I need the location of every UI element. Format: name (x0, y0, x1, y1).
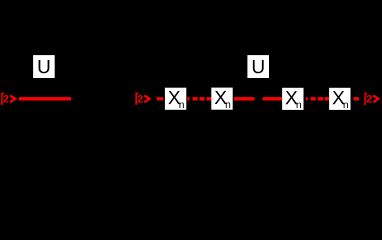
ket |2> left (input state, left circuit) (1, 93, 15, 105)
gate U (left circuit) (33, 55, 55, 78)
wire segment (dash between middle ket and gate X_n 1) (157, 97, 163, 100)
wire segment (dash between X_n 4 and right ket) (354, 97, 359, 100)
wire segment (long dashes under gate U, right circuit) (234, 97, 282, 100)
wire W1 (solid red wire, left circuit) (19, 97, 71, 100)
wire segment (dotted wire between X_n 1 and X_n 2) (187, 97, 211, 100)
ket |2> middle (input state, right circuit) (135, 93, 149, 105)
gate U (right circuit, above wire) (247, 55, 269, 78)
gate X_n (4) (329, 88, 350, 110)
gate X_n (2) (211, 88, 232, 110)
gate X_n (3) (282, 88, 303, 110)
wire segment (dotted wire between X_n 3 and X_n 4) (306, 97, 329, 100)
gate X_n (1) (165, 88, 186, 110)
ket |2> right (output state, right circuit) (364, 93, 378, 105)
